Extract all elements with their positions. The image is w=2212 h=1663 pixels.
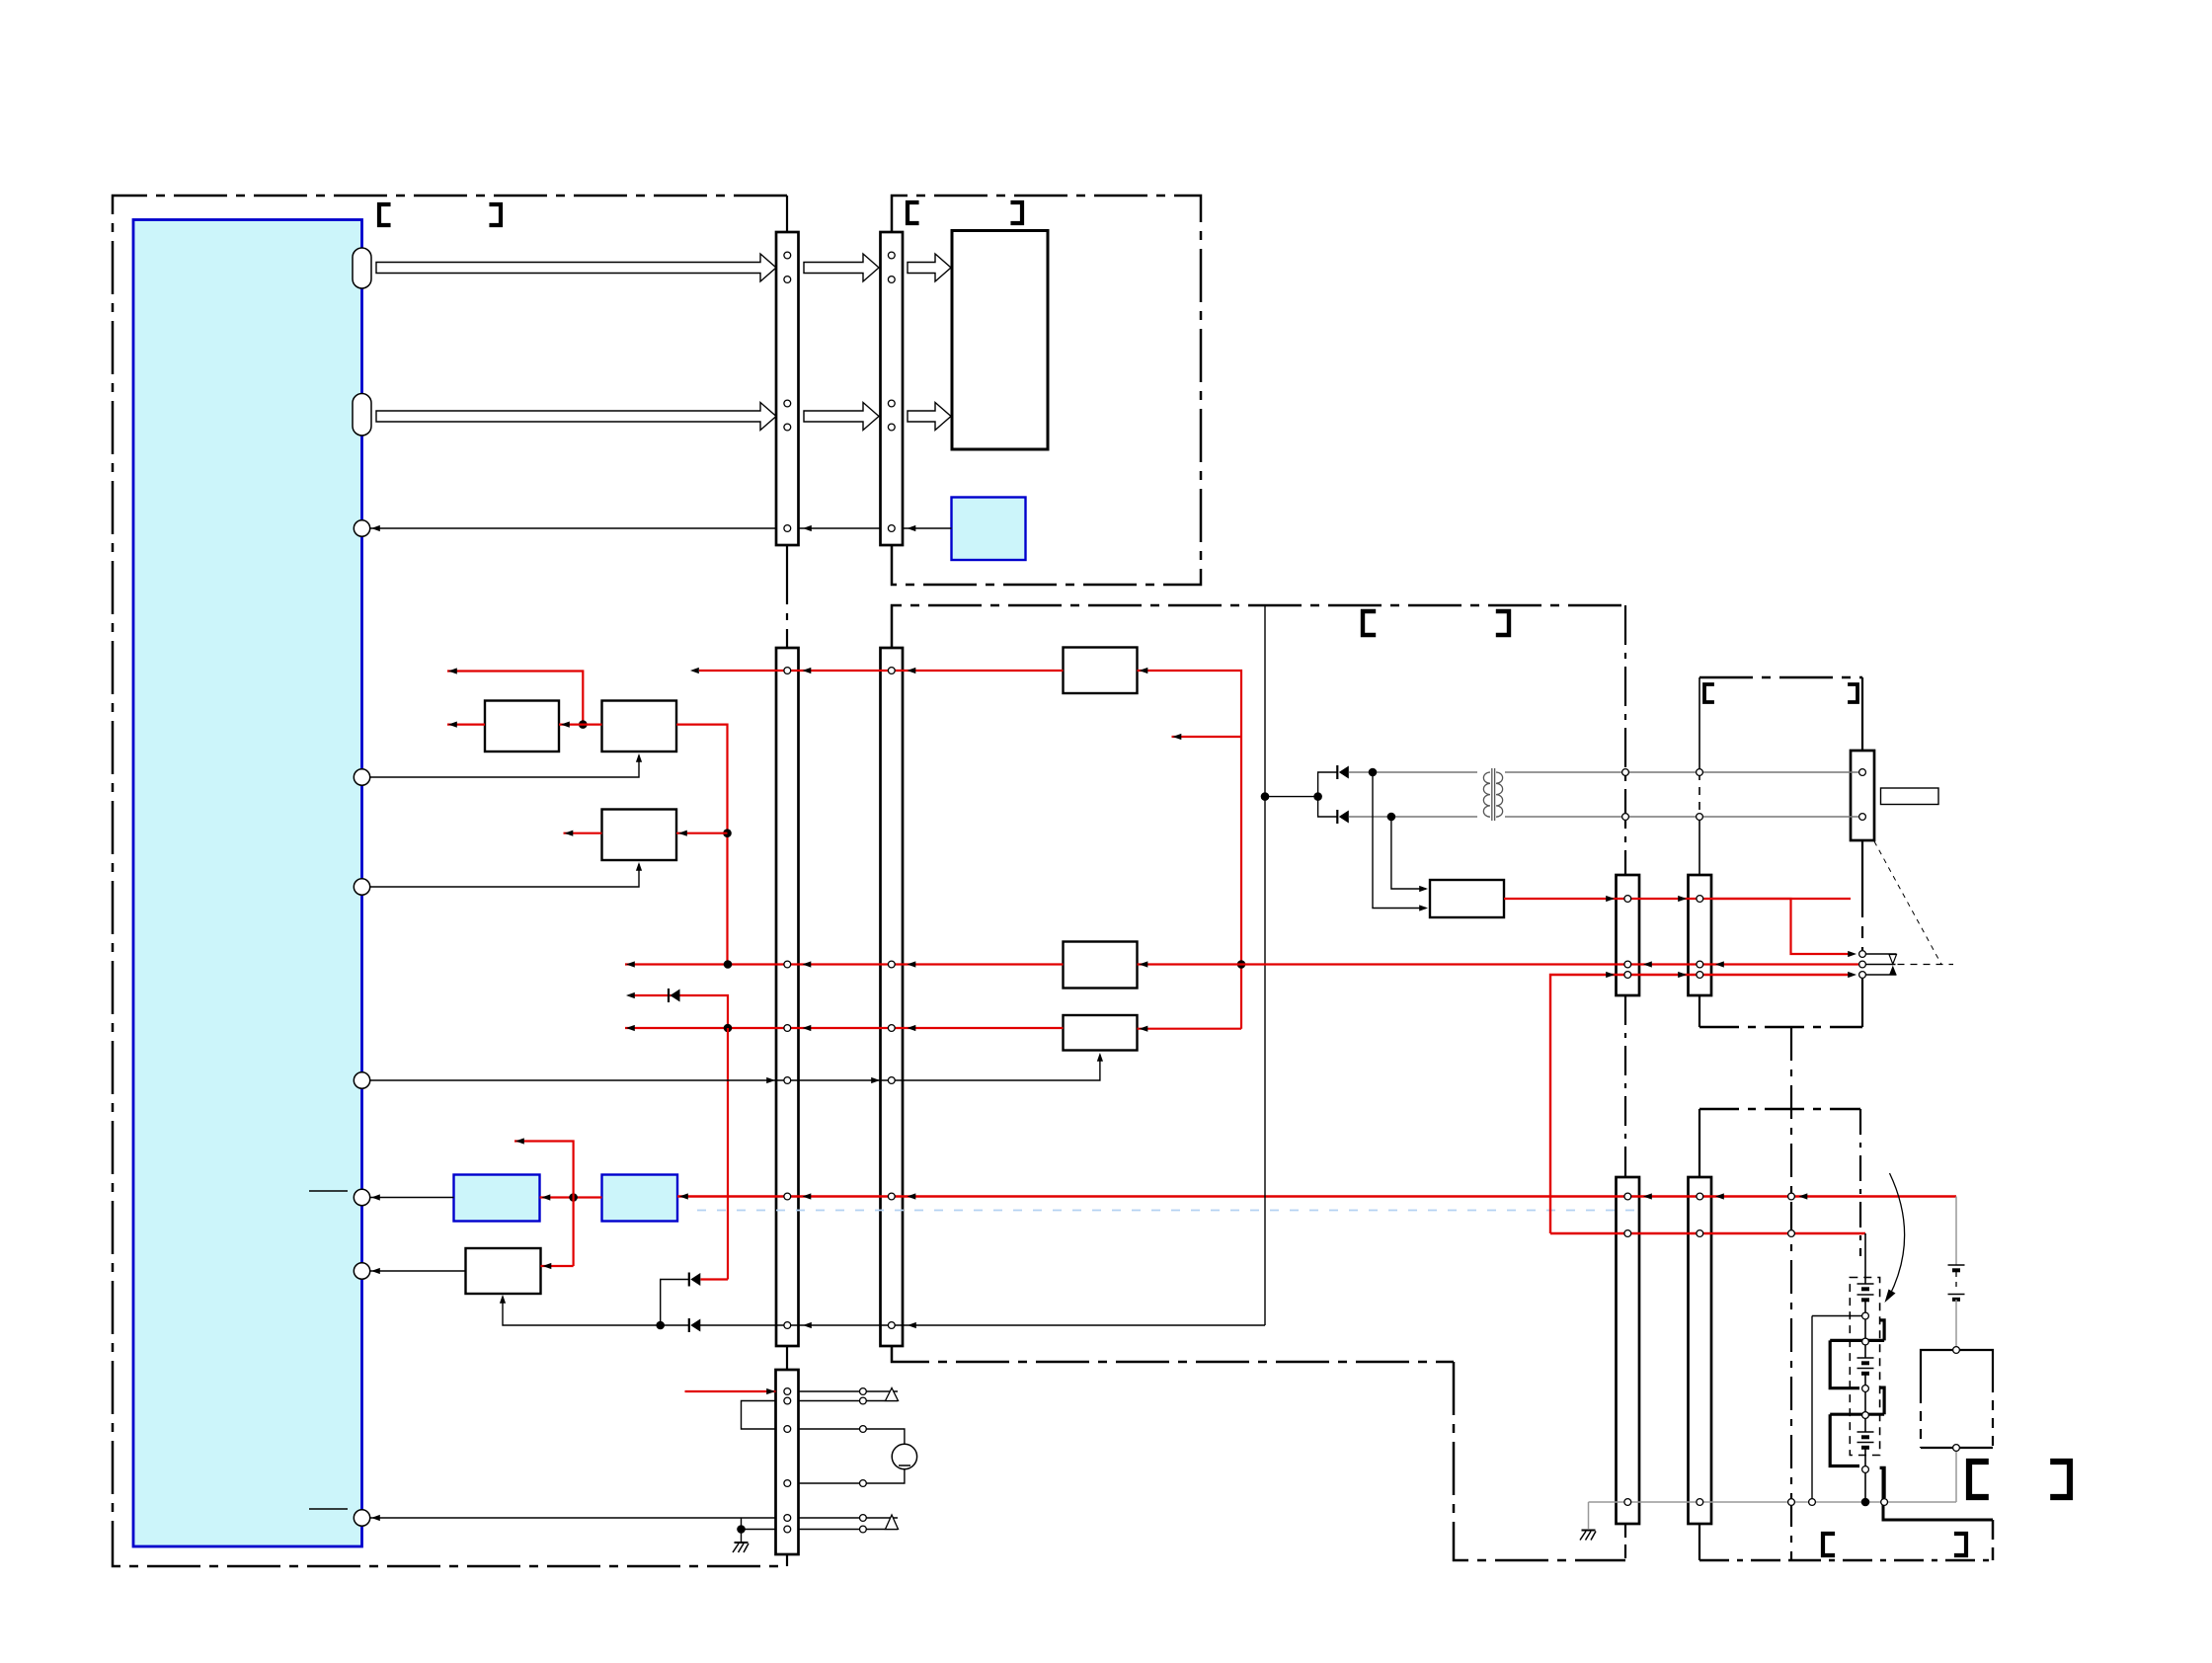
red wire R3 left out [564,832,602,834]
label box right of CR [1881,788,1939,805]
connector C8 [1689,1177,1712,1524]
connector C7 [1617,1177,1640,1524]
black wire D1 to junction x668.7 [661,1280,689,1326]
battery bottom wire to ground wire [1864,1473,1866,1503]
arrow left of C4 y1041 [908,1025,916,1031]
junction dot (737,1041) [724,1024,733,1033]
diode D4 [1336,810,1338,824]
pin C6 y987 [1697,972,1703,979]
red stub arrow (y=679.5) to R1 net [447,672,583,725]
battery tap circle T3 [1862,1386,1869,1392]
splice triangle lower [886,1515,899,1530]
lower-right box bottom border [1699,1559,1791,1562]
lower-middle box boundary C5 to C7 [1624,995,1626,1177]
connector C5 [1617,875,1640,995]
ECU terminal circle T1287 [354,1263,369,1279]
pin C3 y1342 [784,1322,791,1329]
red vertical x580.6 with dead-end arrow [514,1142,574,1267]
upper-right box left stub below C6 [1698,995,1700,1027]
battery cell 2a [1857,1357,1874,1359]
lower-right component box top border [1699,1108,1860,1111]
arrow left of C3 y1342 [803,1322,812,1328]
connector C1 [776,232,799,545]
junction dot (750.5,1548.5) [737,1525,746,1534]
arrow left of C3 wireA [803,1193,812,1199]
junction dot battery minus [1861,1498,1870,1507]
ground symbol G2 [1582,1530,1596,1532]
arrow left of C5 y976 [1643,961,1652,967]
pin C1 y535 [784,525,791,532]
arrow left of C3 y1041 [803,1025,812,1031]
label brackets bottom-right small [1823,1534,1835,1555]
wire B corner into battery [1864,1233,1866,1284]
minus tick near T1212 [309,1190,348,1192]
pin C7 wireB [1624,1230,1631,1237]
pin C9 y1548.5 [784,1526,791,1533]
wire C9 pin1548 to splice [799,1529,899,1531]
red wire y1041 to B3 left [625,1027,1064,1029]
pin C3 wireA [784,1193,791,1200]
black wire T1287 to R4 [370,1270,466,1272]
battery tap circle T1 [1862,1312,1869,1319]
arrow into circle y987 [1848,972,1856,978]
ECU terminal circle T1537 [354,1510,369,1526]
battery wire tap3-tap4 [1864,1392,1866,1412]
arrow tip y1008 left end [626,992,635,998]
cyan box S2 [454,1175,540,1222]
pin C9 y1447 [784,1426,791,1433]
battery cell 1a [1857,1283,1874,1285]
connector CR [1851,751,1874,840]
bus arrow A2 C1 to C2 [804,254,879,281]
ground symbol G1 [735,1542,749,1544]
red wire R2 right to vertical x736.5 [676,725,728,964]
pin C4 wireA [888,1193,895,1200]
pin C1 arrow row1 upper [784,252,791,259]
wire to B4 upper pin [1391,817,1426,889]
junction dot (580.6,1212.5) [569,1193,578,1202]
battery module bracket right upper [1880,1320,1885,1341]
arrow tip y976 left end [626,961,635,967]
battery tap1 drop to ground wire [1811,1316,1813,1499]
arrow tip y1155.5 [515,1138,524,1144]
transformer secondary winding [1496,772,1503,817]
pill terminal P2 on ECU edge [353,394,371,436]
transformer primary winding [1483,772,1490,817]
label brackets bottom-right large [1969,1462,1989,1497]
long red power wire A from S3 to right section [677,1195,1956,1197]
arrow into R3 bottom [636,862,642,871]
junction dot (1408.9,827) [1387,813,1396,822]
arrow into B1 right edge [1140,668,1148,673]
wire x1281 junction to diode pair [1265,796,1318,798]
big block in middle-top box [952,231,1048,450]
pin C2 arrow row1 upper [888,252,895,259]
ECU terminal circle T787 [354,769,369,785]
battery dashed box [1850,1278,1879,1456]
battery wire to tap1 [1864,1301,1866,1313]
gray wire transformer to CR (y827) [1505,816,1862,818]
wire pin1447 to voltmeter [799,1429,905,1445]
red wire B4 to C5/C6 (y910) [1504,898,1851,900]
diode D3 [1336,765,1338,779]
box W bottom circle [1953,1445,1960,1452]
box R1 [485,701,559,752]
battery cell 1b [1857,1294,1874,1296]
curved pointer arrow [1889,1173,1905,1297]
arrow into B3 right edge [1140,1026,1148,1032]
wire C9 pin1418 to splice [799,1400,899,1402]
battery module thick link lower [1830,1413,1884,1416]
upper-right box right edge below CR solid [1861,840,1863,906]
arrow left of C1 on y535 [803,525,812,531]
battery bottom bracket to ground wire [1880,1467,1885,1498]
circle battery tap drop x1835 [1809,1499,1816,1506]
bus arrow A1 ECU to C1 [376,254,776,281]
connector C2 [881,232,904,545]
box B4 sensor [1430,880,1504,917]
arrow into B4 upper pin [1419,886,1428,892]
arrow tip R3 left [565,831,574,836]
arrow into C6 left y987 [1678,972,1687,978]
junction dot (668.7,1342) [656,1321,665,1330]
junction dot (1257,976.5) [1237,960,1246,969]
arrow into S2 right edge [542,1194,551,1200]
pin C4 y976 [888,961,895,968]
pin C5 y910 [1624,896,1631,903]
wire to B4 lower pin [1373,772,1426,909]
red wire B1 right to x1257 corner [1138,671,1242,1029]
arrow into T1212 [371,1194,380,1200]
battery tap1 wire left [1812,1315,1862,1317]
battery bottom circle T5 [1862,1466,1869,1473]
battery wire tap4-cell3 [1864,1419,1866,1433]
diode D2 [688,1318,690,1332]
pin C2 arrow row1 lower [888,277,895,283]
boundary circle (1646,782) [1622,769,1629,776]
black wire T1212 to S2 [370,1197,454,1199]
red wire y679 stub arrow to B1 [699,670,1064,672]
box W top circle [1953,1347,1960,1354]
red diode stub wire y1008 [635,995,729,1028]
upper-right box left edge upper [1698,677,1700,772]
arrow into T1287 [371,1268,380,1274]
boundary circle wireA x1814 [1788,1193,1795,1200]
ground wire left drop [1588,1502,1590,1529]
pin C8 wireB [1697,1230,1703,1237]
detail stub lines [1866,953,1897,955]
pin C9 y1537 [784,1515,791,1522]
red wire R1 to R2 (y=733.6) [559,723,602,725]
upper-right box left edge to C6 [1698,817,1700,875]
lower-middle component box top border [892,605,1625,649]
small battery dashed link [1955,1272,1957,1292]
bottom-right small box borders [1791,1559,1993,1562]
battery wire to bottom tap [1864,1448,1866,1466]
upper-right component box top border [1699,676,1862,679]
left ECU box dash-dot border (top/left/bottom) [113,196,787,1566]
black wire D2 to connectors y1342 [700,1324,1265,1326]
battery module thick link upper [1830,1339,1884,1342]
arrow right of boundary wireA [1799,1193,1808,1199]
left box boundary between C1 and C3 [786,545,788,649]
label brackets middle-top box [908,202,919,223]
arrow into T1537 [371,1515,380,1521]
pin C2 y535 [888,525,895,532]
left box boundary stub C3 to C9 [786,1346,788,1370]
arrow into R3 right edge [678,831,687,836]
pin C3 y1094 [784,1077,791,1084]
battery wire tap2-cell2 [1864,1345,1866,1358]
circle on wire1537 [860,1515,867,1522]
upper-right box bottom border [1699,1026,1862,1029]
bus arrow B1 ECU to C1 [376,403,776,431]
pin C9 y1409 [784,1388,791,1395]
battery wire tap1-tap2 [1864,1319,1866,1338]
wire linking D3/D4 cathodes [1318,772,1338,817]
arrow tip y746 [1173,734,1182,740]
junction dot (1334.6,806.6) [1313,792,1322,801]
circle on wire1447 [860,1426,867,1433]
red vertical x737 lower segment [727,1028,729,1280]
box B3 in lower-middle box [1064,1015,1138,1051]
battery module bracket left lower [1830,1414,1859,1465]
wire S1 to C2 to C1 to ECU (y=535) [370,527,952,529]
pin C8 wireA [1697,1193,1703,1200]
black vertical x1281 to lower-middle box top [1264,605,1266,1325]
arrow before C4 y1094 [871,1077,880,1083]
circle on wire1502 [860,1480,867,1487]
arrow left of C7 wireA [1643,1193,1652,1199]
bottom-right small box right edge [1992,1520,1995,1560]
box B2 in lower-middle box [1064,942,1138,989]
pin C2 arrow row2 upper [888,400,895,407]
connector C3 [776,648,799,1346]
red wire S2 to S3 [540,1196,602,1198]
pill terminal P1 on ECU edge [353,248,371,288]
jumper loop pins 1418-1447 [742,1401,777,1430]
arrow into B3 bottom [1097,1053,1103,1062]
diode D1 [688,1273,690,1287]
red wire into R4 right edge [541,1265,574,1267]
upper-right box right edge to bottom [1861,979,1863,1027]
arrow into C5 left y910 [1606,896,1615,902]
lower-middle box right boundary above connector C5 [1624,605,1626,875]
pin C7 ground wire [1624,1499,1631,1506]
pin C9 y1502 [784,1480,791,1487]
pin C5 y976 [1624,961,1631,968]
pin C7 wireA [1624,1193,1631,1200]
wire D3 to transformer primary (gray) [1349,771,1477,773]
pin C4 y679 [888,668,895,674]
label brackets lower-middle box [1363,611,1376,635]
red wire corner to circle y966 [1711,899,1852,954]
ECU terminal circle T535 [354,520,369,536]
black wire ECU T787 to R2 bottom [370,755,639,777]
battery module bracket right lower [1880,1387,1885,1414]
box R2 [602,701,677,752]
junction dot (737,976.5) [724,960,733,969]
red wire into R3 right edge (y=843.7) [676,832,728,834]
junction dot (1281,806.6) [1261,792,1270,801]
pin C4 y1041 [888,1025,895,1032]
arrow tip y1041 left end [626,1025,635,1031]
red wire y976 B2 to detail circle [1138,963,1859,965]
arrow left of C6 y976 [1715,961,1724,967]
splice triangle upper [886,1388,899,1401]
battery compartment boundary dash-dot vertical [1790,1027,1792,1560]
battery wire to tap3 [1864,1374,1866,1386]
arrow into R2 bottom [636,753,642,762]
detail circle (1886,987) [1859,972,1866,979]
ECU terminal circle T1212 [354,1189,369,1205]
arrow into R4 bottom [500,1295,506,1304]
battery tap circle T4 [1862,1412,1869,1419]
arrow into C5 left y987 [1606,972,1615,978]
light blue dashed harness line [697,1210,1639,1212]
boundary circle (1721,827) [1697,814,1703,821]
arrow tip R1 left [448,722,457,728]
battery cell 3b [1857,1442,1874,1444]
upper-right box left edge dashed mid [1698,772,1700,817]
battery module bracket left upper [1830,1340,1859,1387]
arrow into C9 left edge [766,1388,775,1394]
gray wire up to box W [1955,1452,1957,1503]
boundary circle (1646,827) [1622,814,1629,821]
pin C3 y679 [784,668,791,674]
boundary circle (1721,782) [1697,769,1703,776]
red wire into C9 (y1409) [685,1390,776,1392]
red wire y987 corner x1570 to detail circle [1550,975,1852,1233]
red power wire B to battery [1550,1232,1865,1234]
wire C9 pin1409 to splice [799,1390,899,1392]
pin CR y782 [1859,769,1866,776]
label brackets top-left box [379,204,391,225]
arrow left of C4 y679 [908,668,916,673]
arrow tip y679.5 [448,668,457,673]
pin C6 y976 [1697,961,1703,968]
pin C1 arrow row2 lower [784,424,791,431]
small battery cell a [1948,1264,1965,1266]
ground branch from y1537 [742,1518,776,1530]
arrow into R1 right edge [561,722,570,728]
lower-right box left stub below C8 [1698,1524,1700,1560]
pin C4 y1342 [888,1322,895,1329]
detail circle (1886,966) [1859,951,1866,958]
battery cell 3a [1857,1431,1874,1433]
arrow left of C4 y1342 [908,1322,916,1328]
pin C4 y1094 [888,1077,895,1084]
boundary circle ground x1908 [1881,1499,1888,1506]
red wire R1 left out [447,723,485,725]
lower-middle box stub below C7 [1624,1524,1626,1560]
ECU terminal circle T898 [354,879,369,895]
circle on wire1548 [860,1526,867,1533]
pin C3 y976 [784,961,791,968]
voltage sensor circle [892,1444,916,1468]
pin C1 arrow row1 lower [784,277,791,283]
detail dashed projection line 2 [1898,964,1954,966]
battery cell 2b [1857,1368,1874,1370]
arrow left of C3 y679 [803,668,812,673]
middle-top component box dash-dot border [892,196,1201,585]
detail dashed projection line 1 [1874,841,1941,965]
box R3 [602,810,677,861]
box W outline [1921,1350,1993,1393]
arrow into C6 left y910 [1678,896,1687,902]
red dead-end arrow from x1257 (y=746) [1172,736,1242,738]
connector C4 [881,648,904,1346]
label brackets upper-right box [1704,684,1714,702]
arrow left of C2 on y535 [908,525,916,531]
lower-right box left stub to C8 [1698,1109,1700,1177]
arrow left of C3 y976 [803,961,812,967]
black wire ECU T898 to R3 bottom [370,864,639,887]
arrow left of C4 wireA [908,1193,916,1199]
junction dot (590.3,733.6) [579,720,588,729]
arrow left of C8 wireA [1715,1193,1724,1199]
junction dot (1390,782) [1369,768,1378,777]
arrow into B4 lower pin [1419,905,1428,911]
arrow into T535 [371,525,380,531]
arrow into circle y966 [1848,951,1856,957]
arrow tip y679 left end [690,668,699,673]
detail circle (1886,976.5) [1859,961,1866,968]
pin C2 arrow row2 lower [888,424,895,431]
left box right boundary stub above connector C1 [786,196,788,233]
upper-right box right edge above CR [1861,677,1863,751]
lower-right box right edge [1859,1109,1861,1256]
circle on wire1409 [860,1388,867,1395]
junction dot (736.5,843.7) [723,829,732,837]
red wire C6 to corner x1813.5 [1697,896,1703,903]
mating symbol open triangle [1889,955,1897,965]
arrow left of C4 y976 [908,961,916,967]
ground stub below junction [741,1530,743,1543]
arrow into B2 right edge [1140,961,1148,967]
transformer core lines [1491,768,1493,821]
cyan box S1 in middle-top box [952,498,1026,561]
gray ground wire [1589,1501,1957,1503]
mating symbol filled triangle [1889,966,1896,975]
boundary circle ground x1814 [1788,1499,1795,1506]
black wire T1094 to B3 bottom [370,1055,1100,1080]
arrow into S3 right edge [679,1193,688,1199]
diode D5 on y1008 [668,989,670,1002]
red jumper from x737 to diode D1 [701,1278,729,1280]
pin C1 arrow row2 upper [784,400,791,407]
small battery cell b [1948,1294,1965,1296]
arrow into R4 right edge [543,1263,552,1269]
black wire R4 pin to C3/C4 (y1342) [503,1297,689,1325]
bottom-right label box border [1883,1467,1993,1520]
ECU main block (cyan) [133,220,362,1547]
red wire into B3 right edge [1138,1028,1242,1030]
box R4 relay [466,1248,541,1294]
arrow before C3 y1094 [766,1077,775,1083]
pin C8 ground wire [1697,1499,1703,1506]
gray drop from wire A corner [1955,1197,1957,1266]
circle on wire1418 [860,1397,867,1404]
gray wire transformer to CR (y782) [1505,771,1862,773]
connector C6 [1689,875,1712,995]
black wire T1537 to C9 [370,1517,776,1519]
battery tap circle T2 [1862,1338,1869,1345]
lower-middle box bottom-right border [1454,1362,1625,1560]
connector C9 [776,1370,799,1554]
wire voltmeter to pin1502 [799,1469,905,1483]
wire D4 to transformer primary (gray) [1349,816,1477,818]
